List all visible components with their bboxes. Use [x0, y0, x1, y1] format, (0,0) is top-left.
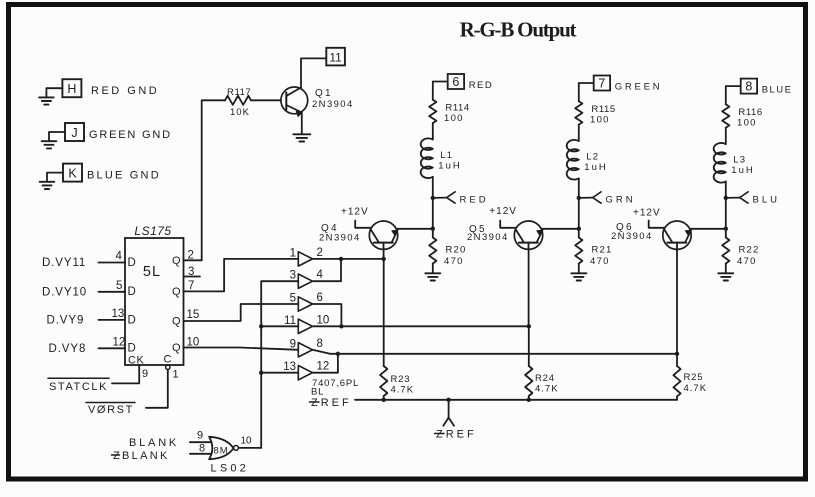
svg-text:3: 3 — [290, 270, 296, 282]
svg-text:R20: R20 — [446, 245, 467, 256]
svg-text:470: 470 — [590, 256, 610, 267]
svg-text:Q1: Q1 — [315, 88, 333, 99]
svg-text:100: 100 — [444, 113, 464, 124]
svg-text:D.VY9: D.VY9 — [47, 314, 85, 326]
svg-text:5: 5 — [116, 280, 122, 292]
svg-text:4.7K: 4.7K — [391, 385, 415, 396]
svg-text:BLU: BLU — [753, 195, 780, 206]
svg-text:R21: R21 — [592, 245, 613, 256]
svg-text:100: 100 — [590, 115, 610, 126]
svg-text:BLUE GND: BLUE GND — [87, 170, 161, 182]
svg-text:VØRST: VØRST — [88, 404, 134, 416]
svg-text:+12V: +12V — [489, 206, 517, 217]
svg-text:2N3904: 2N3904 — [611, 231, 653, 242]
svg-text:BL: BL — [311, 387, 324, 398]
svg-text:C: C — [164, 354, 172, 366]
svg-text:10: 10 — [317, 314, 330, 326]
svg-text:+12V: +12V — [341, 207, 369, 218]
svg-text:11: 11 — [329, 51, 342, 65]
svg-text:2N3904: 2N3904 — [467, 232, 509, 243]
svg-text:9: 9 — [142, 368, 148, 380]
svg-text:12: 12 — [113, 337, 126, 349]
svg-text:8: 8 — [745, 80, 752, 94]
svg-text:R24: R24 — [535, 373, 555, 384]
svg-text:LS175: LS175 — [134, 224, 171, 238]
svg-text:LS02: LS02 — [211, 463, 250, 475]
svg-text:K: K — [68, 166, 77, 180]
svg-text:4: 4 — [317, 269, 324, 281]
svg-text:D.VY11: D.VY11 — [42, 257, 86, 269]
svg-text:R23: R23 — [391, 374, 411, 385]
svg-text:CK: CK — [128, 355, 144, 367]
svg-text:7: 7 — [188, 280, 194, 292]
svg-text:Q: Q — [172, 255, 181, 267]
svg-text:J: J — [71, 126, 77, 140]
svg-text:7: 7 — [598, 77, 605, 91]
svg-text:Q: Q — [172, 316, 181, 328]
svg-text:1uH: 1uH — [584, 162, 607, 173]
svg-text:5L: 5L — [143, 264, 161, 280]
svg-text:L1: L1 — [440, 150, 453, 161]
svg-text:11: 11 — [284, 315, 296, 327]
svg-text:9: 9 — [290, 338, 296, 350]
svg-text:Q: Q — [172, 286, 181, 298]
svg-text:L3: L3 — [733, 155, 746, 166]
svg-text:470: 470 — [444, 256, 464, 267]
svg-text:9: 9 — [197, 430, 203, 442]
svg-text:2: 2 — [317, 247, 323, 259]
svg-text:R-G-B Output: R-G-B Output — [460, 18, 577, 42]
svg-text:15: 15 — [187, 309, 200, 321]
svg-text:D: D — [128, 314, 136, 326]
svg-text:1: 1 — [290, 247, 296, 259]
svg-text:RED GND: RED GND — [91, 85, 159, 97]
svg-text:2N3904: 2N3904 — [319, 233, 361, 244]
svg-text:L2: L2 — [586, 152, 599, 163]
svg-text:100: 100 — [737, 118, 757, 129]
svg-text:GRN: GRN — [606, 195, 636, 206]
svg-text:2N3904: 2N3904 — [312, 99, 354, 110]
svg-text:8M: 8M — [214, 446, 229, 457]
svg-text:H: H — [67, 82, 76, 96]
svg-text:R116: R116 — [738, 107, 762, 118]
svg-text:D: D — [128, 286, 136, 298]
svg-text:STATCLK: STATCLK — [49, 381, 108, 393]
svg-text:4.7K: 4.7K — [684, 383, 708, 394]
svg-text:D: D — [128, 343, 136, 355]
svg-text:R115: R115 — [591, 104, 615, 115]
svg-text:1: 1 — [173, 369, 179, 381]
svg-text:ZREF: ZREF — [436, 429, 477, 441]
svg-text:R25: R25 — [684, 372, 704, 383]
svg-text:GREEN: GREEN — [615, 82, 663, 93]
svg-text:R22: R22 — [739, 245, 760, 256]
svg-text:4.7K: 4.7K — [535, 384, 559, 395]
svg-text:4: 4 — [116, 251, 123, 263]
svg-text:8: 8 — [317, 338, 323, 350]
svg-text:470: 470 — [737, 256, 757, 267]
svg-text:13: 13 — [112, 308, 125, 320]
svg-text:5: 5 — [290, 293, 296, 305]
svg-text:10K: 10K — [230, 107, 250, 118]
svg-text:1uH: 1uH — [438, 161, 461, 172]
svg-text:12: 12 — [317, 361, 330, 373]
svg-text:D: D — [128, 257, 136, 269]
svg-text:Q: Q — [172, 342, 181, 354]
svg-text:R114: R114 — [445, 103, 469, 114]
svg-text:D.VY8: D.VY8 — [49, 343, 87, 355]
svg-text:RED: RED — [469, 80, 494, 91]
svg-text:6: 6 — [317, 292, 323, 304]
svg-text:D.VY10: D.VY10 — [42, 286, 87, 298]
svg-text:R117: R117 — [227, 87, 251, 98]
svg-text:6: 6 — [452, 75, 459, 89]
svg-text:RED: RED — [460, 195, 489, 206]
svg-text:10: 10 — [241, 436, 253, 447]
svg-text:ZREF: ZREF — [311, 397, 352, 409]
svg-text:+12V: +12V — [633, 208, 661, 219]
svg-text:8: 8 — [199, 443, 205, 455]
svg-text:BLUE: BLUE — [762, 85, 793, 96]
svg-text:13: 13 — [283, 361, 296, 373]
svg-text:GREEN GND: GREEN GND — [89, 129, 172, 141]
svg-text:1uH: 1uH — [731, 165, 754, 176]
svg-text:BLANK: BLANK — [129, 437, 179, 449]
svg-text:ZBLANK: ZBLANK — [113, 450, 170, 462]
